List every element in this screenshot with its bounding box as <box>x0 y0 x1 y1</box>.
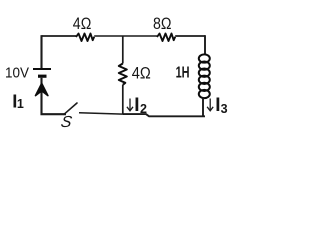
resistor 4Ω middle vertical zigzag <box>119 64 127 85</box>
battery 10V top plate <box>33 68 51 70</box>
current arrow I1 (upward dart) <box>36 83 48 95</box>
wire bottom from switch to middle junction <box>79 113 123 114</box>
wire middle vertical upper <box>122 36 124 64</box>
wire left vertical upper <box>40 35 42 68</box>
current label ↓I3 <box>207 99 213 111</box>
inductor 1H coil <box>199 54 210 98</box>
svg-text:1H: 1H <box>176 64 190 81</box>
svg-text:1: 1 <box>17 97 24 111</box>
svg-text:4Ω: 4Ω <box>73 15 92 33</box>
svg-text:3: 3 <box>221 102 228 116</box>
wire middle vertical lower <box>122 85 124 114</box>
wire left vertical lower <box>42 78 67 114</box>
wire right vertical upper <box>204 35 206 55</box>
svg-text:2: 2 <box>140 102 147 116</box>
wire right vertical lower <box>202 98 204 117</box>
svg-text:8Ω: 8Ω <box>153 15 172 33</box>
resistor 8Ω zigzag <box>157 34 175 42</box>
wire bottom-right with jog <box>123 114 205 116</box>
wire top-right segment <box>175 35 205 37</box>
wire top-middle segment <box>94 35 157 37</box>
resistor 4Ω top zigzag <box>76 34 94 42</box>
svg-text:I: I <box>134 95 139 116</box>
wire top-left segment <box>42 35 77 37</box>
current label ↓I2 <box>127 99 133 111</box>
svg-text:10V: 10V <box>5 64 29 81</box>
battery 10V bottom plate <box>38 75 47 78</box>
svg-text:4Ω: 4Ω <box>132 65 151 83</box>
svg-text:S: S <box>59 113 73 131</box>
switch S blade <box>64 103 77 114</box>
